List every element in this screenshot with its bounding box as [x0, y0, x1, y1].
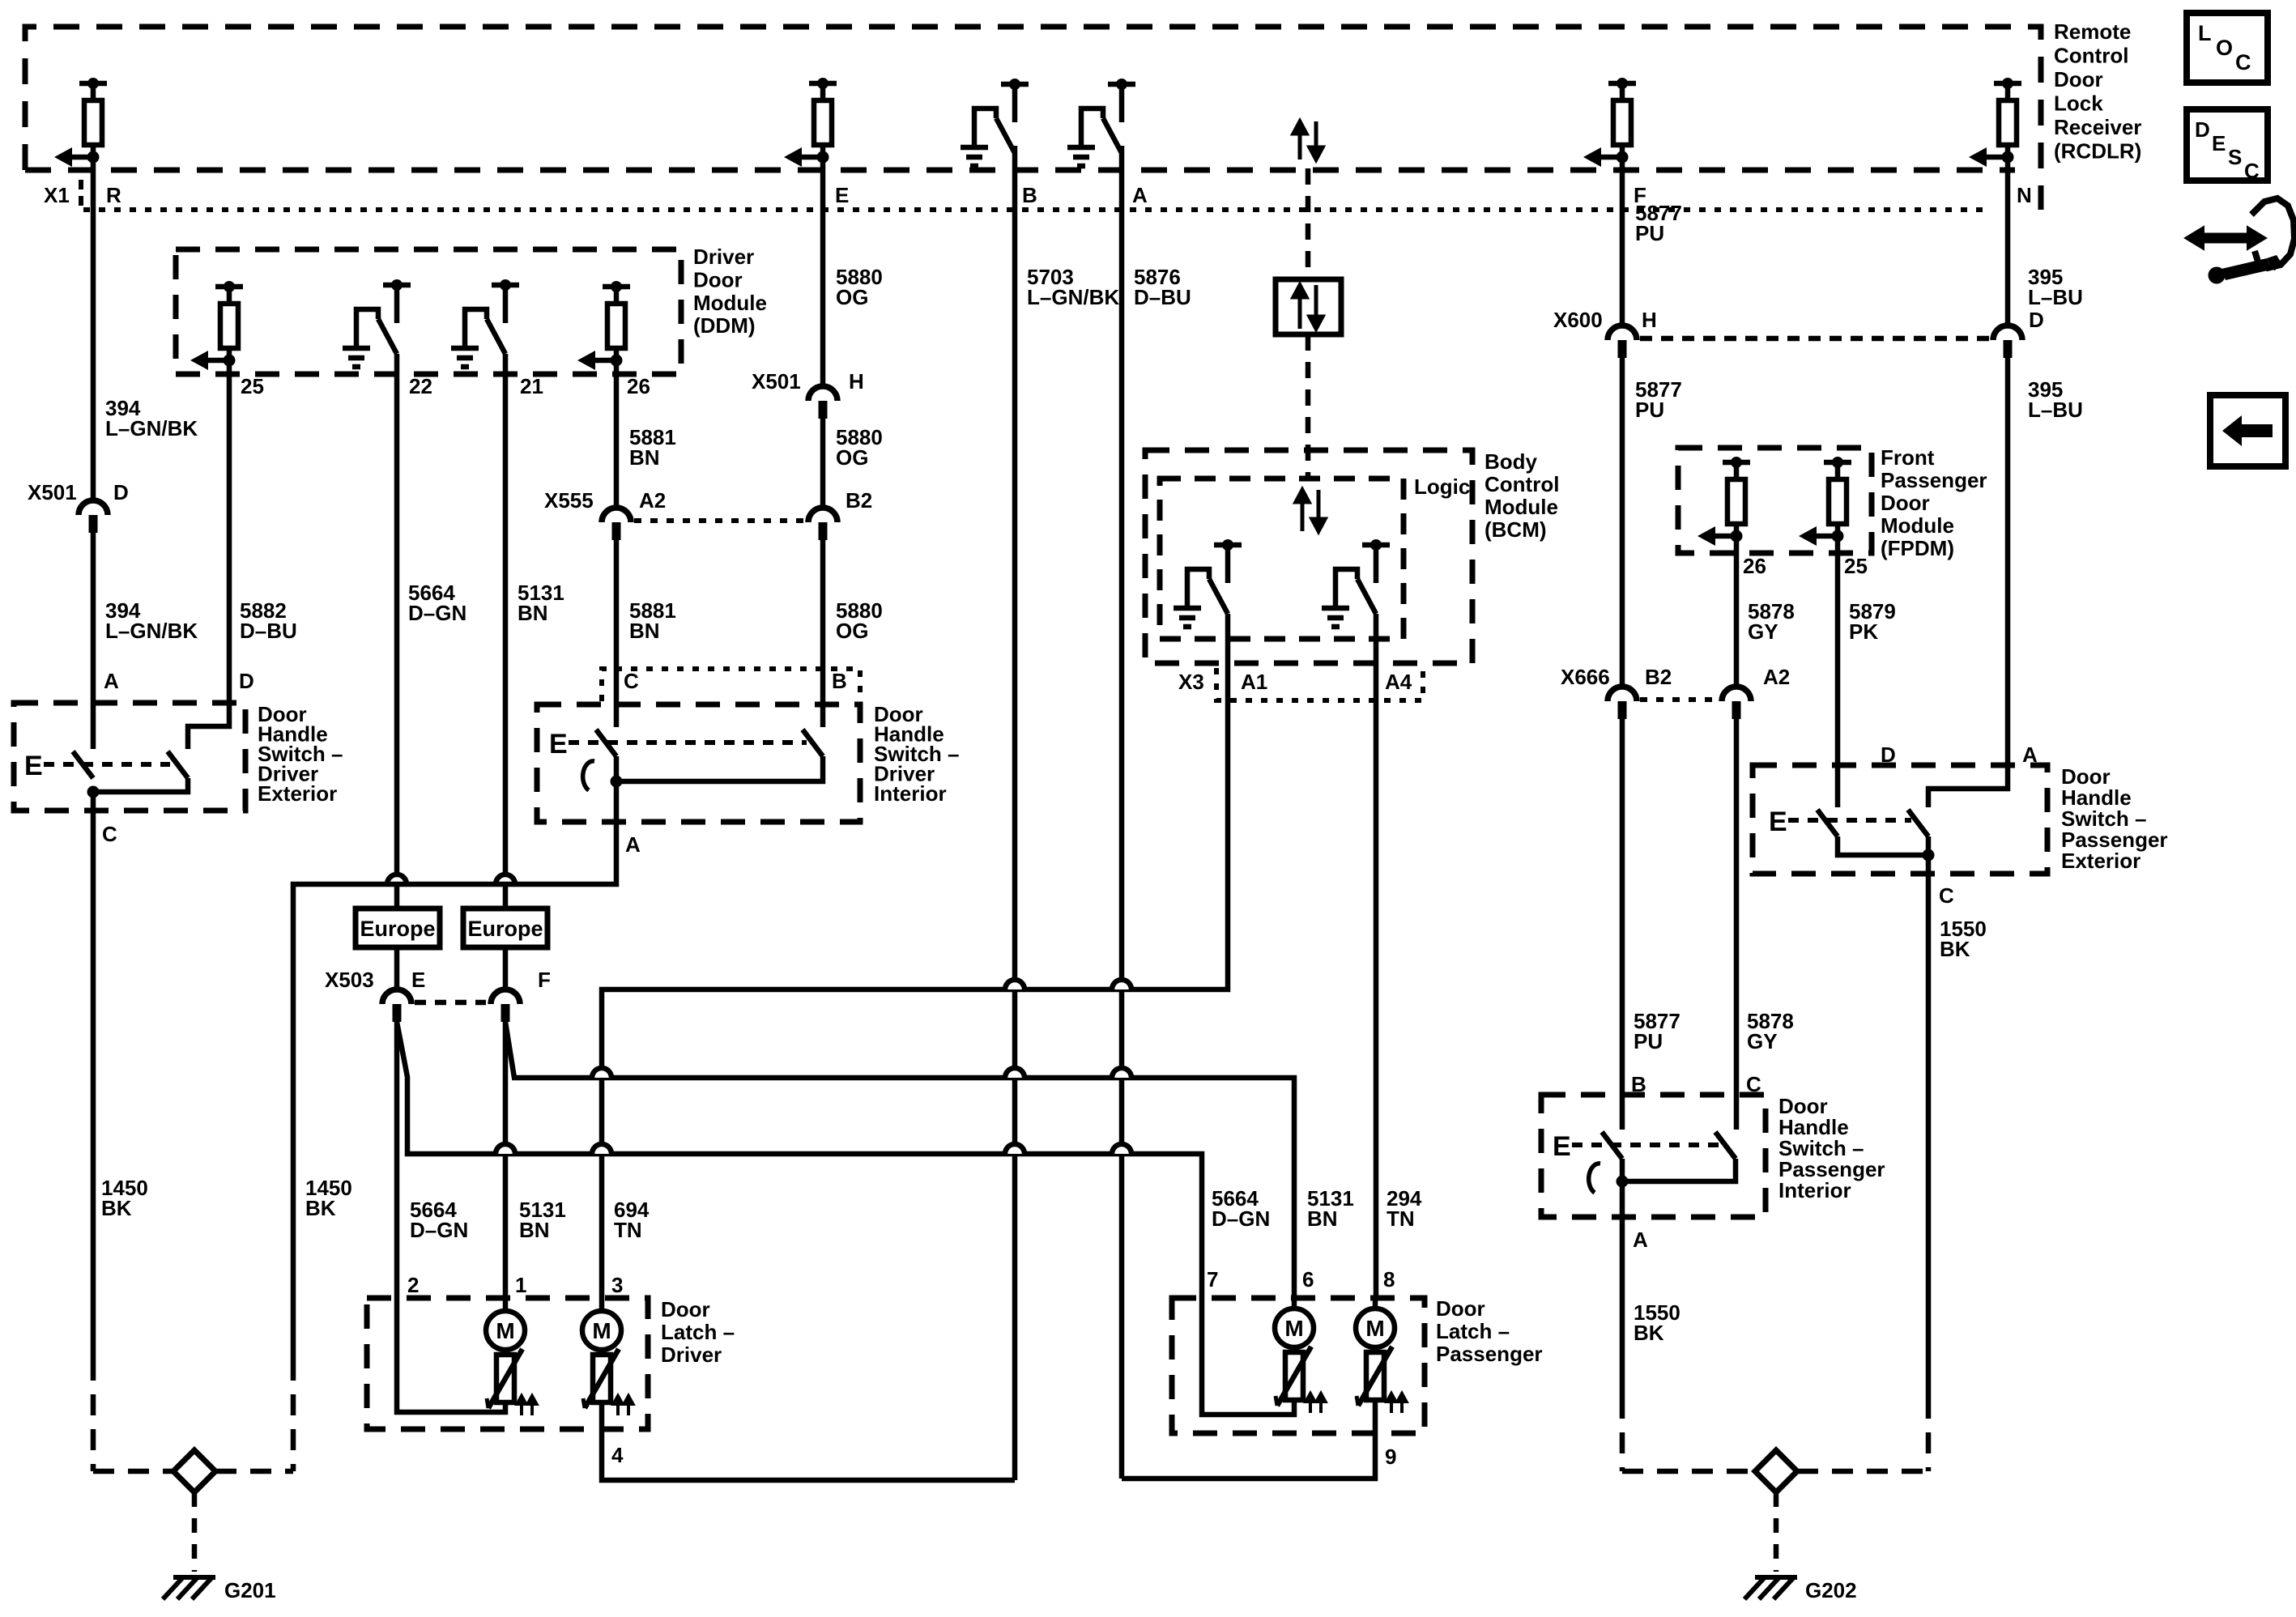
svg-text:BK: BK	[1940, 937, 1970, 961]
svg-text:X501: X501	[28, 480, 77, 504]
ground G202	[1744, 1577, 1797, 1599]
Europe box 2	[463, 908, 547, 947]
wire pin 4 to wire B	[602, 1402, 1015, 1480]
LOC icon box	[2187, 13, 2268, 83]
svg-text:G202: G202	[1805, 1578, 1857, 1602]
wire A 5876 D-BU	[1119, 146, 1125, 1479]
Door Handle Switch Passenger Interior box	[1541, 1095, 1766, 1217]
svg-text:A4: A4	[1385, 670, 1412, 694]
svg-text:D: D	[2195, 117, 2210, 142]
svg-text:2: 2	[407, 1273, 419, 1297]
wire C 1550 BK right	[1926, 855, 1932, 1398]
svg-text:Passenger: Passenger	[1436, 1342, 1543, 1366]
thermistor driver lock	[496, 1355, 514, 1402]
svg-text:Module: Module	[693, 291, 767, 315]
svg-text:25: 25	[241, 374, 264, 398]
svg-text:Control: Control	[1485, 472, 1559, 496]
Door Latch Passenger box	[1172, 1298, 1425, 1433]
svg-text:B: B	[1022, 183, 1037, 207]
svg-text:E: E	[1769, 806, 1787, 837]
svg-text:BK: BK	[305, 1196, 336, 1220]
connector X600 pin H	[1608, 326, 1637, 340]
svg-text:D–BU: D–BU	[1134, 285, 1191, 309]
ground switch RCDLR pin A	[1067, 84, 1135, 166]
svg-text:25: 25	[1844, 554, 1868, 578]
resistor RCDLR pin R	[72, 83, 107, 157]
wire 22 5664 D-GN	[394, 354, 400, 908]
svg-text:X600: X600	[1553, 308, 1603, 332]
svg-text:TN: TN	[614, 1218, 642, 1242]
svg-text:D: D	[1881, 743, 1896, 767]
svg-text:C: C	[624, 669, 639, 693]
connector X555 pin A2	[602, 508, 631, 522]
connector X501 pin D	[79, 500, 108, 515]
svg-text:BN: BN	[518, 601, 548, 625]
wires Europe to X503	[394, 947, 400, 989]
svg-text:D–GN: D–GN	[408, 601, 466, 625]
svg-text:3: 3	[611, 1273, 623, 1297]
svg-text:Europe: Europe	[360, 917, 435, 941]
svg-text:22: 22	[409, 374, 432, 398]
thermistor driver unlock	[593, 1355, 611, 1402]
RCDLR module box	[25, 27, 2041, 210]
motor M passenger unlock	[1356, 1308, 1395, 1347]
svg-text:Lock: Lock	[2054, 91, 2103, 116]
svg-text:R: R	[106, 183, 121, 207]
svg-text:Interior: Interior	[874, 781, 947, 806]
svg-text:OG: OG	[836, 445, 868, 470]
wire A to 1450 BK	[293, 781, 616, 1360]
svg-text:BK: BK	[1634, 1321, 1664, 1345]
svg-text:E: E	[2212, 131, 2226, 155]
resistor DDM pin 26	[595, 287, 630, 360]
motor M driver lock	[486, 1311, 525, 1350]
svg-text:(DDM): (DDM)	[693, 313, 756, 338]
svg-text:Control: Control	[2054, 44, 2128, 68]
svg-text:B2: B2	[846, 488, 872, 513]
connector X501 pin H	[808, 386, 837, 401]
BCM module box	[1145, 450, 1472, 663]
wire 5878 GY	[1734, 536, 1740, 687]
svg-text:C: C	[1939, 883, 1954, 908]
svg-text:O: O	[2216, 36, 2233, 60]
svg-text:S: S	[2228, 145, 2242, 169]
wire F 5877 PU	[1620, 157, 1625, 326]
svg-text:Module: Module	[1881, 513, 1954, 538]
svg-text:L–GN/BK: L–GN/BK	[105, 619, 198, 643]
svg-text:X503: X503	[325, 968, 374, 992]
svg-text:H: H	[1642, 308, 1657, 332]
data dashed line	[1306, 168, 1311, 279]
ground G202 path	[1622, 1469, 1755, 1474]
motor M passenger lock	[1275, 1308, 1314, 1347]
connector X503 pin E	[382, 989, 411, 1004]
svg-text:OG: OG	[836, 619, 868, 643]
svg-text:Door: Door	[661, 1297, 710, 1321]
wire C 1450 BK	[91, 792, 96, 1360]
svg-text:PK: PK	[1849, 619, 1878, 644]
svg-text:L–BU: L–BU	[2028, 398, 2083, 422]
svg-text:Latch –: Latch –	[1436, 1319, 1510, 1343]
connector X666 pin B2	[1608, 687, 1637, 701]
svg-text:8: 8	[1383, 1267, 1395, 1291]
switch blades driver exterior	[73, 751, 93, 778]
svg-text:Driver: Driver	[661, 1343, 722, 1367]
connector X1 row	[83, 207, 1988, 212]
thermistor passenger lock	[1285, 1352, 1303, 1400]
svg-text:L: L	[2198, 21, 2212, 45]
connector X555 pin B2	[808, 508, 837, 522]
left arrow icon box	[2210, 395, 2285, 466]
svg-text:M: M	[1284, 1316, 1303, 1341]
ground switch BCM A4	[1322, 545, 1390, 627]
svg-text:Body: Body	[1485, 449, 1538, 474]
wire 26 5881 BN	[614, 360, 620, 508]
svg-text:Receiver: Receiver	[2054, 115, 2141, 139]
splice diamond G202	[1755, 1450, 1797, 1492]
svg-text:E: E	[549, 729, 568, 760]
connector bracket above driver interior switch	[602, 669, 860, 701]
svg-text:A2: A2	[1763, 665, 1790, 689]
wire N 395 L-BU	[2005, 157, 2011, 326]
svg-text:Front: Front	[1881, 445, 1935, 470]
ground switch DDM pin 22	[343, 285, 411, 367]
Door Handle Switch Passenger Exterior box	[1753, 765, 2047, 874]
svg-text:Module: Module	[1485, 495, 1558, 519]
svg-text:Door: Door	[2054, 67, 2103, 91]
svg-text:TN: TN	[1387, 1206, 1415, 1231]
ground G201	[163, 1577, 215, 1599]
svg-text:1: 1	[515, 1273, 526, 1297]
ground G201 path	[93, 1469, 173, 1474]
boxed up/down arrows	[1276, 279, 1341, 334]
svg-text:C: C	[2235, 50, 2251, 74]
svg-text:9: 9	[1385, 1445, 1396, 1469]
svg-text:26: 26	[1743, 554, 1766, 578]
wire E 5880 OG	[820, 157, 826, 386]
svg-text:D: D	[2029, 308, 2044, 332]
connector X3 row	[1216, 668, 1423, 700]
resistor RCDLR pin N	[1987, 83, 2021, 157]
svg-text:X666: X666	[1561, 665, 1610, 689]
svg-text:OG: OG	[836, 285, 868, 309]
svg-text:C: C	[2244, 159, 2260, 183]
svg-text:Remote: Remote	[2054, 19, 2131, 44]
svg-text:X1: X1	[44, 183, 70, 207]
svg-text:GY: GY	[1748, 619, 1778, 644]
wire BCM A1 to bus	[602, 614, 1228, 1298]
ground switch RCDLR pin B	[961, 84, 1029, 166]
Europe box 1	[356, 908, 440, 947]
svg-text:M: M	[592, 1318, 611, 1343]
Door Handle Switch Driver Exterior box	[14, 703, 245, 811]
splice diamond G201	[173, 1450, 215, 1492]
connector X503 pin F	[491, 989, 520, 1004]
hand with double arrow and wrench icon	[2251, 198, 2294, 268]
svg-text:Door: Door	[1436, 1296, 1485, 1321]
svg-text:N: N	[2017, 183, 2032, 207]
resistor DDM pin 25	[208, 287, 243, 360]
svg-text:G201: G201	[224, 1578, 276, 1602]
svg-text:Logic: Logic	[1414, 474, 1470, 499]
wire 5131 BN down to driver latch pin 1	[503, 1022, 509, 1298]
svg-text:A: A	[2022, 743, 2038, 767]
resistor FPDM pin 26	[1715, 462, 1750, 536]
svg-text:4: 4	[611, 1443, 624, 1467]
wire 21 5131 BN	[503, 354, 509, 908]
wire pin 9 to wire A	[1373, 1400, 1378, 1433]
svg-text:BN: BN	[629, 619, 660, 643]
wire R 394 L-GN/BK	[91, 157, 96, 500]
wire hops	[1005, 980, 1024, 989]
svg-text:E: E	[24, 751, 43, 781]
svg-text:M: M	[496, 1318, 514, 1343]
svg-text:B: B	[832, 669, 847, 693]
svg-text:(BCM): (BCM)	[1485, 517, 1547, 542]
svg-text:GY: GY	[1747, 1029, 1778, 1053]
connector X666 pin A2	[1722, 687, 1751, 701]
wire B 5703 L-GN/BK	[1012, 146, 1018, 1480]
svg-text:A: A	[625, 832, 641, 857]
svg-text:BN: BN	[629, 445, 660, 470]
svg-text:B2: B2	[1645, 665, 1672, 689]
svg-text:7: 7	[1207, 1267, 1218, 1291]
FPDM module box	[1678, 448, 1872, 553]
svg-text:Exterior: Exterior	[258, 781, 337, 806]
thermistor passenger unlock	[1366, 1352, 1384, 1400]
wire 5879 PK	[1835, 536, 1841, 807]
svg-text:D–GN: D–GN	[1212, 1206, 1270, 1231]
resistor RCDLR pin F	[1601, 83, 1636, 157]
svg-text:PU: PU	[1634, 1029, 1663, 1053]
Door Handle Switch Driver Interior box	[537, 704, 860, 822]
wire A 1550 BK left	[1620, 1181, 1625, 1398]
data arrows BCM	[1296, 490, 1325, 531]
svg-text:A: A	[1132, 183, 1148, 207]
svg-text:F: F	[538, 968, 551, 992]
wire BCM A4 294 TN	[1374, 614, 1379, 1298]
svg-text:E: E	[411, 968, 425, 992]
svg-text:BN: BN	[1307, 1206, 1338, 1231]
svg-text:Europe: Europe	[467, 917, 543, 941]
svg-text:(RCDLR): (RCDLR)	[2054, 139, 2141, 164]
resistor FPDM pin 25	[1817, 462, 1851, 536]
arrows in box	[1293, 285, 1323, 329]
data arrows RCDLR	[1293, 121, 1323, 160]
svg-text:BN: BN	[519, 1218, 550, 1242]
svg-text:D: D	[239, 669, 254, 693]
svg-text:A1: A1	[1241, 670, 1267, 694]
DESC icon box	[2187, 109, 2268, 181]
svg-text:26: 26	[627, 374, 650, 398]
svg-text:L–GN/BK: L–GN/BK	[1027, 285, 1119, 309]
svg-text:L–GN/BK: L–GN/BK	[105, 416, 198, 440]
wire 5664 D-GN down to driver latch pin 2	[394, 1022, 400, 1298]
bus: X503-E to passenger latch pin 7	[397, 1022, 1202, 1298]
svg-text:PU: PU	[1635, 221, 1664, 245]
svg-text:Exterior: Exterior	[2061, 849, 2141, 873]
ground switch DDM pin 21	[451, 285, 519, 367]
svg-text:21: 21	[520, 374, 543, 398]
svg-text:D: D	[113, 480, 129, 504]
svg-text:L–BU: L–BU	[2028, 285, 2083, 309]
latch driver pin2 loop	[397, 1298, 505, 1412]
svg-text:A2: A2	[639, 488, 666, 513]
svg-text:X555: X555	[544, 488, 594, 513]
svg-text:Door: Door	[1881, 491, 1930, 515]
ground switch BCM A1	[1174, 545, 1242, 627]
svg-text:D–BU: D–BU	[240, 619, 297, 643]
svg-text:A: A	[104, 669, 119, 693]
svg-text:PU: PU	[1635, 398, 1664, 422]
svg-text:Door: Door	[693, 267, 743, 291]
svg-text:Driver: Driver	[693, 245, 754, 269]
Door Latch Driver box	[367, 1298, 648, 1429]
bus: X503-F to passenger latch pin 6	[505, 1022, 1294, 1298]
svg-text:M: M	[1365, 1316, 1384, 1341]
resistor RCDLR pin E	[802, 83, 837, 157]
connector X600 pin D	[1993, 326, 2022, 340]
svg-text:(FPDM): (FPDM)	[1881, 536, 1954, 560]
svg-text:H: H	[849, 369, 864, 394]
connector X600 dashed link	[1640, 336, 1990, 342]
svg-text:C: C	[102, 822, 117, 846]
svg-text:Passenger: Passenger	[1881, 468, 1987, 492]
svg-text:6: 6	[1302, 1267, 1314, 1291]
svg-text:X501: X501	[752, 369, 801, 394]
svg-text:BK: BK	[101, 1196, 132, 1220]
svg-text:Interior: Interior	[1778, 1178, 1851, 1202]
svg-text:Latch –: Latch –	[661, 1320, 735, 1344]
svg-text:D–GN: D–GN	[410, 1218, 468, 1242]
svg-text:E: E	[1553, 1131, 1571, 1162]
wire 25 5882 D-BU	[188, 360, 229, 749]
motor M driver unlock	[582, 1311, 621, 1350]
svg-text:X3: X3	[1178, 670, 1204, 694]
svg-text:E: E	[835, 183, 849, 207]
DDM module box	[176, 249, 681, 374]
svg-text:A: A	[1633, 1228, 1648, 1252]
